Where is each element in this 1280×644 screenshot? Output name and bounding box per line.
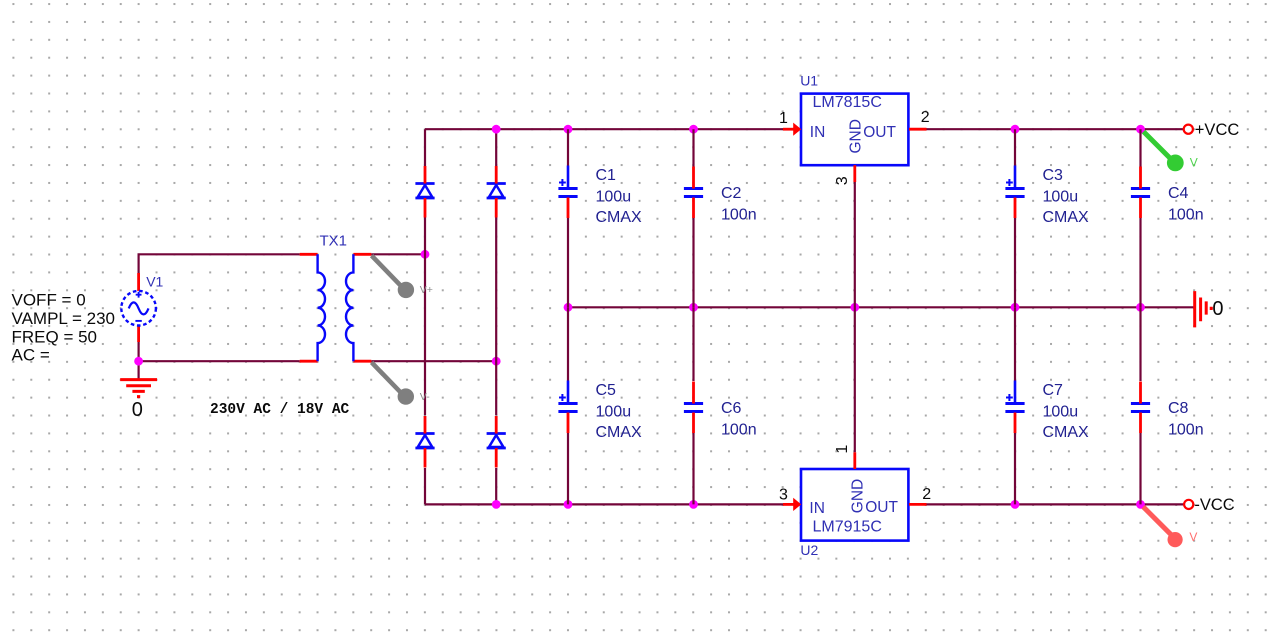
wire C8 column	[1139, 307, 1141, 504]
svg-text:V: V	[1190, 155, 1198, 169]
svg-text:100n: 100n	[721, 207, 757, 224]
capacitor C1	[558, 166, 577, 219]
svg-text:100n: 100n	[721, 422, 757, 439]
pin name OUT (U1)	[863, 124, 896, 141]
transformer TX1	[300, 254, 372, 361]
label V-	[420, 391, 430, 403]
svg-text:OUT: OUT	[863, 124, 896, 141]
wire C7 column	[1014, 307, 1016, 504]
capacitor C2	[684, 167, 703, 219]
wire top rail right	[926, 128, 1188, 130]
label C1 value	[596, 167, 643, 226]
svg-text:-VCC: -VCC	[1194, 496, 1234, 514]
ground 0 (left)	[120, 380, 157, 397]
pin 1 wire (U1 IN)	[783, 123, 801, 136]
wire C6 column	[692, 307, 694, 504]
ground 0 (right, rotated)	[1195, 291, 1212, 327]
svg-text:100u: 100u	[1043, 404, 1079, 421]
pin number 2 (U2)	[922, 486, 931, 503]
probe V- (gray)	[372, 362, 414, 404]
label C2 value	[721, 185, 757, 224]
svg-text:FREQ = 50: FREQ = 50	[12, 327, 98, 346]
svg-text:100u: 100u	[596, 404, 632, 421]
diode D1	[415, 166, 434, 218]
op-amp U2 body (LM7915C box)	[801, 469, 908, 541]
node bottom rail right junctions	[1011, 500, 1145, 509]
wire C5 column	[567, 307, 569, 504]
node secondary bottom junction	[492, 357, 501, 366]
svg-text:AC =: AC =	[12, 345, 50, 364]
label TX1	[320, 232, 348, 249]
wire bottom rail right	[926, 503, 1188, 505]
svg-text:C1: C1	[596, 167, 617, 184]
diode D2	[487, 166, 506, 218]
voltage source V1	[121, 273, 156, 342]
probe V (red, -VCC)	[1143, 507, 1183, 547]
wire mid ground rail	[568, 306, 1194, 308]
svg-text:C7: C7	[1043, 382, 1064, 399]
wire TX1 secondary bottom to bridge	[371, 360, 496, 362]
pin number 3 (U1)	[834, 176, 851, 185]
svg-text:100n: 100n	[1168, 207, 1204, 224]
node V1 bottom junction	[134, 357, 143, 366]
svg-text:C5: C5	[596, 382, 617, 399]
label V (green probe)	[1190, 155, 1198, 169]
pin name OUT (U2)	[865, 499, 898, 516]
pin number 1 (U1)	[779, 110, 788, 127]
wire C2 column	[692, 129, 694, 307]
svg-text:100u: 100u	[1043, 189, 1079, 206]
svg-text:V+: V+	[420, 284, 433, 296]
op-amp U1 body (LM7815C box)	[801, 94, 908, 166]
svg-text:0: 0	[1212, 298, 1223, 320]
svg-text:0: 0	[132, 399, 143, 421]
pin 1 wire (U2 GND)	[853, 452, 856, 469]
capacitor C7	[1005, 381, 1024, 434]
wire C4 column	[1139, 129, 1141, 307]
pin 3 wire (U2 IN)	[783, 498, 801, 511]
svg-text:100n: 100n	[1168, 422, 1204, 439]
capacitor C5	[558, 381, 577, 434]
wire diode column D2/D4	[495, 129, 497, 504]
svg-text:OUT: OUT	[865, 499, 898, 516]
wire V1 bottom to ground stub	[138, 342, 140, 379]
svg-text:C2: C2	[721, 185, 742, 202]
svg-text:CMAX: CMAX	[596, 209, 643, 226]
svg-text:IN: IN	[809, 500, 825, 517]
svg-text:U2: U2	[800, 542, 818, 558]
label C7 value	[1043, 382, 1090, 441]
svg-text:C3: C3	[1043, 167, 1064, 184]
svg-text:GND: GND	[849, 479, 866, 513]
node top rail junctions	[492, 125, 698, 134]
capacitor C8	[1131, 382, 1150, 434]
svg-text:VAMPL = 230: VAMPL = 230	[12, 309, 115, 328]
label V1 parameters	[12, 290, 115, 364]
svg-text:230V AC / 18V AC: 230V AC / 18V AC	[210, 402, 350, 418]
label -VCC	[1194, 496, 1234, 514]
svg-text:VOFF = 0: VOFF = 0	[12, 290, 86, 309]
svg-text:LM7815C: LM7815C	[813, 94, 882, 111]
wire V1 bottom to TX1 primary	[139, 360, 300, 362]
label V (red probe)	[1189, 530, 1197, 544]
label C5 value	[596, 382, 643, 441]
label V1	[146, 274, 163, 290]
label LM7815C	[813, 94, 882, 111]
label LM7915C	[813, 519, 882, 536]
pin number 2 (U1)	[921, 109, 930, 126]
label U2	[800, 542, 818, 558]
svg-text:C6: C6	[721, 400, 742, 417]
pin name GND (U1)	[847, 119, 864, 153]
label C4 value	[1168, 185, 1204, 224]
capacitor C4	[1131, 167, 1150, 219]
svg-text:C8: C8	[1168, 400, 1189, 417]
node secondary top junction	[421, 250, 430, 259]
svg-text:TX1: TX1	[320, 232, 348, 249]
wire C1 column	[567, 129, 569, 307]
pin number 1 (U2)	[834, 445, 851, 454]
svg-text:100u: 100u	[596, 189, 632, 206]
svg-text:CMAX: CMAX	[1043, 209, 1090, 226]
wire C3 column	[1014, 129, 1016, 307]
pin 2 wire (U1 OUT)	[909, 128, 927, 131]
label C3 value	[1043, 167, 1090, 226]
node top rail right junctions	[1011, 125, 1145, 134]
svg-text:1: 1	[834, 445, 851, 454]
svg-text:2: 2	[922, 486, 931, 503]
wire TX1 secondary top to bridge	[371, 253, 425, 255]
svg-text:V: V	[1189, 530, 1197, 544]
node +VCC offpage connector	[1184, 125, 1193, 134]
svg-text:1: 1	[779, 110, 788, 127]
pin name GND (U2)	[849, 479, 866, 513]
svg-text:C4: C4	[1168, 185, 1189, 202]
svg-text:GND: GND	[847, 119, 864, 153]
label 0 (right ground)	[1212, 298, 1223, 320]
wire top rail left	[425, 128, 783, 130]
svg-text:IN: IN	[810, 124, 826, 141]
diode D4	[487, 416, 506, 468]
svg-text:CMAX: CMAX	[596, 424, 643, 441]
label 230V AC / 18V AC	[210, 402, 350, 418]
svg-text:+VCC: +VCC	[1195, 121, 1240, 139]
svg-text:LM7915C: LM7915C	[813, 519, 882, 536]
capacitor C6	[684, 382, 703, 434]
node -VCC offpage connector	[1184, 500, 1193, 509]
capacitor C3	[1005, 166, 1024, 219]
svg-text:U1: U1	[800, 72, 818, 88]
label U1	[800, 72, 818, 88]
wire regulator GND column	[854, 182, 856, 452]
node mid rail junctions	[564, 303, 1145, 312]
svg-text:3: 3	[779, 486, 788, 503]
probe V+ (gray)	[372, 256, 414, 298]
diode D3	[415, 416, 434, 468]
pin number 3 (U2)	[779, 486, 788, 503]
label C6 value	[721, 400, 757, 439]
pin 3 wire (U1 GND)	[853, 165, 856, 182]
wire diode column D1/D3	[424, 129, 426, 504]
svg-text:V-: V-	[420, 391, 430, 403]
label +VCC	[1195, 121, 1240, 139]
wire V1 top to TX1 primary	[139, 254, 300, 273]
label 0 (left ground)	[132, 399, 143, 421]
probe V (green, +VCC)	[1144, 132, 1184, 172]
svg-text:2: 2	[921, 109, 930, 126]
svg-text:3: 3	[834, 176, 851, 185]
pin name IN (U1)	[810, 124, 826, 141]
label V+	[420, 284, 433, 296]
pin name IN (U2)	[809, 500, 825, 517]
svg-text:CMAX: CMAX	[1043, 424, 1090, 441]
node bottom rail junctions	[492, 500, 698, 509]
label C8 value	[1168, 400, 1204, 439]
pin 2 wire (U2 OUT)	[909, 503, 927, 506]
wire bottom rail left	[425, 503, 783, 505]
svg-text:V1: V1	[146, 274, 163, 290]
